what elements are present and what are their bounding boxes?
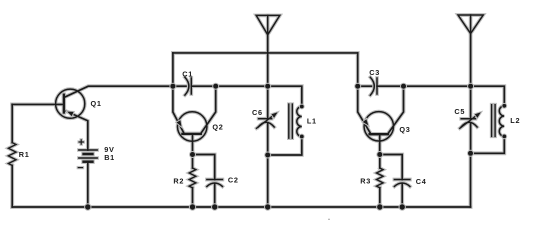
svg-text:L2: L2 bbox=[510, 116, 520, 125]
svg-text:B1: B1 bbox=[104, 153, 115, 162]
svg-text:C6: C6 bbox=[252, 108, 263, 117]
svg-text:C5: C5 bbox=[454, 107, 465, 116]
svg-text:Q1: Q1 bbox=[91, 99, 102, 108]
svg-text:C1: C1 bbox=[182, 69, 193, 78]
svg-text:R1: R1 bbox=[19, 150, 30, 159]
svg-text:R3: R3 bbox=[360, 176, 371, 185]
svg-text:C2: C2 bbox=[228, 176, 239, 185]
svg-text:C4: C4 bbox=[416, 177, 427, 186]
svg-text:Q2: Q2 bbox=[212, 123, 223, 132]
svg-text:Q3: Q3 bbox=[399, 125, 410, 134]
svg-text:L1: L1 bbox=[307, 117, 317, 126]
svg-text:C3: C3 bbox=[369, 68, 380, 77]
svg-text:R2: R2 bbox=[173, 176, 184, 185]
